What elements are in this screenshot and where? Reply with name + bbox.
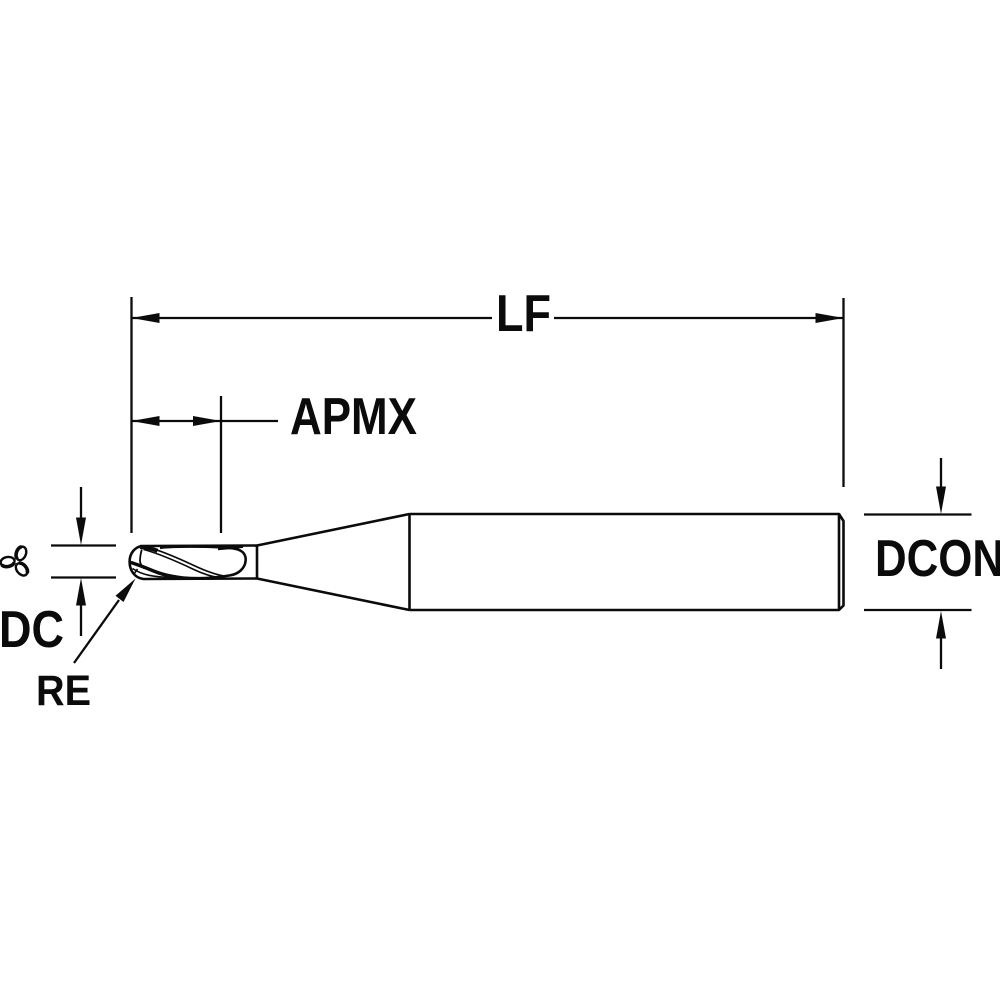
- svg-text:DC: DC: [0, 601, 64, 659]
- svg-text:RE: RE: [36, 667, 91, 715]
- svg-text:APMX: APMX: [290, 388, 417, 446]
- svg-text:DCON: DCON: [875, 530, 1000, 588]
- svg-text:LF: LF: [496, 285, 551, 343]
